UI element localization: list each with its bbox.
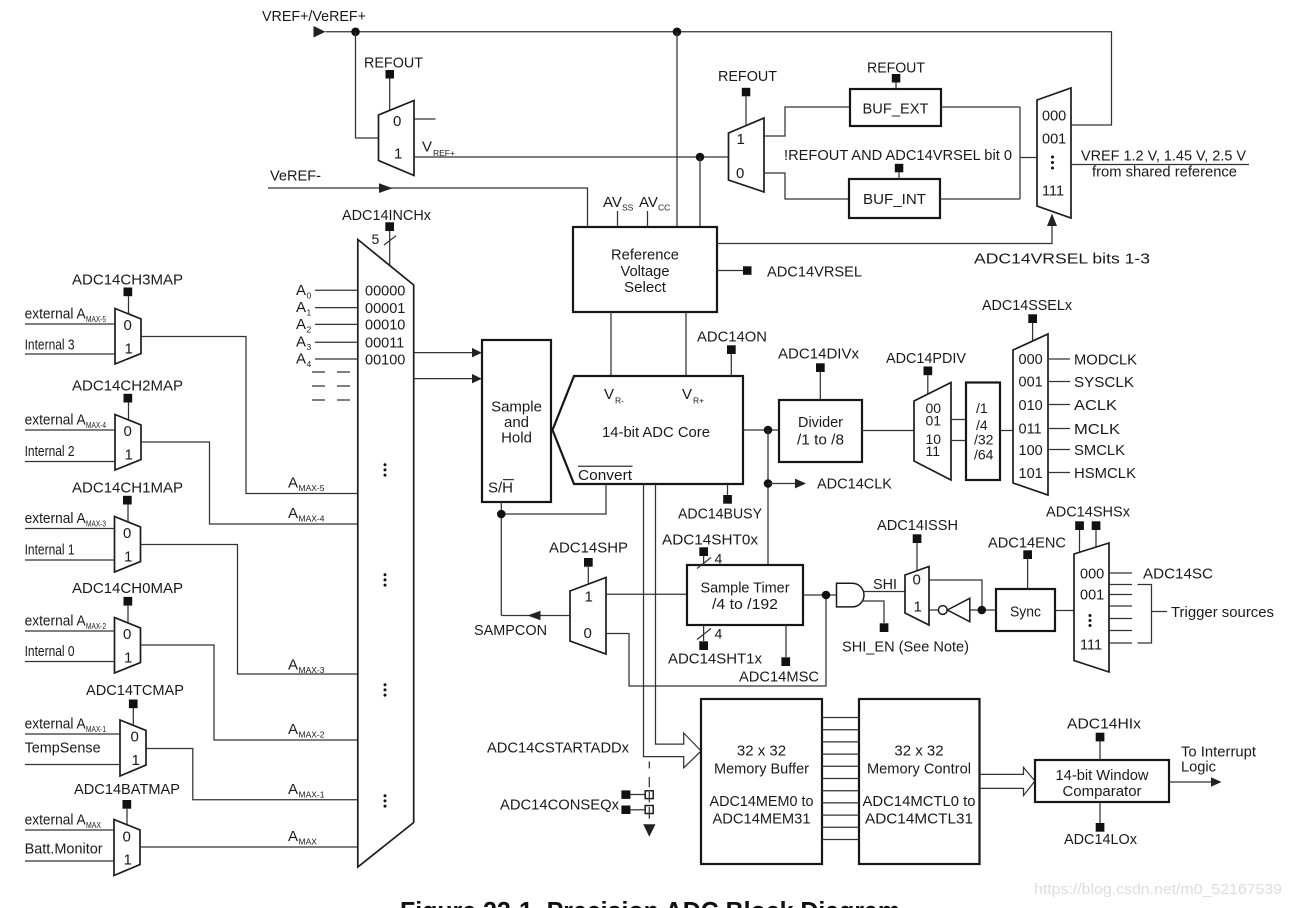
- svg-text:MAX-1: MAX-1: [299, 789, 325, 799]
- label A1: [296, 299, 312, 318]
- wire SHI_EN: [863, 601, 885, 623]
- mux ADC14CH3MAP: [115, 309, 141, 365]
- stub predivider to SSEL mux: [1000, 430, 1013, 432]
- wire convert from S and H: [501, 484, 606, 514]
- svg-text:V: V: [604, 386, 614, 403]
- svg-text:ADC14TCMAP: ADC14TCMAP: [86, 682, 184, 699]
- svg-text:Hold: Hold: [501, 430, 532, 447]
- stub trigger 2: [1109, 594, 1132, 596]
- label A2: [296, 316, 312, 335]
- svg-text:and: and: [504, 414, 529, 431]
- svg-text:Internal 1: Internal 1: [25, 542, 75, 559]
- svg-text:Batt.Monitor: Batt.Monitor: [25, 841, 103, 858]
- mux ADC14PDIV: [914, 383, 951, 481]
- wire TempSense: [25, 764, 120, 766]
- wire SHT0x to timer: [703, 556, 705, 565]
- stub PDIV lower: [951, 440, 966, 442]
- junction: [696, 153, 705, 162]
- bit square ADC14CH2MAP: [124, 394, 133, 403]
- stub buffers to U4: [1020, 157, 1037, 159]
- svg-text:V: V: [422, 139, 432, 156]
- svg-text:0: 0: [124, 317, 132, 334]
- mux ADC14TCMAP: [120, 720, 146, 776]
- bit square ADC14HIx: [1096, 733, 1105, 742]
- wire REFOUT to BUF_EXT: [895, 83, 897, 90]
- svg-text:REFOUT: REFOUT: [718, 68, 777, 85]
- svg-text:A: A: [296, 316, 306, 333]
- wire VR+ from U2 to ADC core: [685, 312, 687, 376]
- wire SHSx select right: [1095, 530, 1097, 548]
- svg-text:14-bit Window: 14-bit Window: [1056, 767, 1149, 784]
- wire bit0 to BUF_INT: [898, 172, 900, 179]
- wire BUF_INT out: [940, 198, 1020, 200]
- wire ADC14VRSEL bits 1-3: [717, 225, 1052, 244]
- svg-text:Internal 2: Internal 2: [25, 443, 75, 460]
- svg-text:Internal 3: Internal 3: [25, 337, 75, 354]
- svg-text:0: 0: [131, 729, 139, 746]
- svg-text:/64: /64: [974, 447, 994, 463]
- label A4: [296, 351, 312, 370]
- bit square ADC14DIVx: [816, 363, 825, 372]
- svg-text:0: 0: [123, 829, 131, 846]
- wire external Amax-3: [25, 528, 115, 530]
- svg-text:ADC14SC: ADC14SC: [1143, 566, 1213, 583]
- svg-text:VeREF-: VeREF-: [270, 168, 321, 185]
- wire external Amax-4: [25, 429, 115, 431]
- svg-text:ADC14ISSH: ADC14ISSH: [877, 517, 958, 534]
- junction: [673, 28, 682, 37]
- svg-text:ADC14SHP: ADC14SHP: [549, 540, 628, 557]
- svg-text:ADC14ENC: ADC14ENC: [988, 535, 1066, 552]
- bit square REFOUT left: [386, 70, 395, 79]
- wire CONSEQ upper link: [630, 794, 645, 796]
- mux ADC14ISSH: [905, 567, 929, 626]
- svg-text:ADC14MEM31: ADC14MEM31: [713, 811, 811, 828]
- bus channel conversion results outer with open arrowhead into memory buffer: [644, 484, 702, 768]
- wire SHSx select left: [1079, 530, 1081, 553]
- svg-text:AV: AV: [603, 194, 622, 211]
- svg-text:MAX-5: MAX-5: [86, 314, 106, 324]
- svg-text:001: 001: [1080, 588, 1104, 604]
- bracket trigger sources: [1138, 585, 1152, 644]
- svg-text:MAX: MAX: [86, 820, 101, 830]
- wire external Amax-2: [25, 630, 115, 632]
- wire CONSEQ lower link: [630, 809, 645, 811]
- svg-text:R+: R+: [693, 396, 704, 406]
- svg-text:REF+: REF+: [433, 148, 455, 158]
- svg-text:HSMCLK: HSMCLK: [1074, 465, 1136, 482]
- svg-text:000: 000: [1080, 567, 1104, 583]
- svg-text:MAX-2: MAX-2: [299, 730, 325, 740]
- wire ADC14CLK stub: [768, 483, 795, 485]
- wire VeREF-: [268, 188, 588, 227]
- wire SAMPCON out: [501, 615, 570, 617]
- svg-text:ADC14CONSEQx: ADC14CONSEQx: [500, 797, 619, 814]
- svg-text:R-: R-: [615, 396, 624, 406]
- svg-text:ADC14CH3MAP: ADC14CH3MAP: [72, 272, 183, 289]
- label A0: [296, 282, 312, 301]
- mux ADC14SHP: [570, 578, 606, 655]
- svg-text:A: A: [288, 657, 298, 674]
- svg-text:Divider: Divider: [798, 414, 843, 431]
- box Sync: [996, 589, 1055, 631]
- svg-text:Sample Timer: Sample Timer: [701, 580, 790, 597]
- svg-text:0: 0: [123, 525, 131, 542]
- wire Internal 2: [25, 461, 115, 463]
- bus memory buffer to control: [822, 718, 859, 840]
- svg-text:MCLK: MCLK: [1074, 421, 1120, 438]
- svg-text:Reference: Reference: [611, 247, 679, 264]
- svg-text:ADC14CH2MAP: ADC14CH2MAP: [72, 378, 183, 395]
- bit square ADC14ON: [727, 345, 736, 354]
- wire SHP select: [587, 567, 589, 584]
- svg-text:001: 001: [1042, 132, 1066, 148]
- svg-text:ADC14MCTL0 to: ADC14MCTL0 to: [863, 793, 976, 810]
- svg-text:/1: /1: [976, 400, 988, 416]
- wire A0: [315, 289, 358, 291]
- svg-text:Memory Control: Memory Control: [867, 761, 971, 778]
- box 14-bit Window Comparator: [1035, 760, 1169, 802]
- wire external Amax-5: [25, 323, 115, 325]
- bit square ADC14SHP: [584, 558, 593, 567]
- svg-text:ADC14SHSx: ADC14SHSx: [1046, 504, 1130, 521]
- stub trigger 4: [1109, 618, 1132, 620]
- wire A1: [315, 307, 358, 309]
- svg-text:1: 1: [914, 599, 922, 616]
- wire U3 out 0 to BUF_INT: [764, 173, 849, 199]
- svg-text:ADC14CH0MAP: ADC14CH0MAP: [72, 580, 183, 597]
- wire CH2 out to Amax-4: [141, 442, 358, 524]
- wire U5 out lower to S and H: [414, 378, 473, 380]
- wire BAT select: [126, 809, 128, 825]
- stub HSMCLK: [1048, 472, 1070, 474]
- wire CH2 select: [128, 403, 130, 421]
- wire A4: [315, 358, 358, 360]
- wire AVcc rail down to Reference Voltage Select: [676, 32, 678, 227]
- svg-text:ADC14SSELx: ADC14SSELx: [982, 297, 1072, 314]
- stub trigger 3: [1109, 605, 1132, 607]
- svg-text:external A: external A: [25, 412, 86, 429]
- svg-text:11: 11: [926, 443, 941, 459]
- svg-text:0: 0: [124, 423, 132, 440]
- svg-text:ADC14DIVx: ADC14DIVx: [778, 346, 860, 363]
- box 32x32 Memory Control: [859, 699, 980, 864]
- stub trigger sources: [1152, 611, 1168, 613]
- mux ADC14BATMAP: [114, 820, 140, 876]
- svg-text:111: 111: [1042, 184, 1064, 200]
- svg-text:0: 0: [913, 572, 921, 589]
- bit square ADC14BATMAP: [123, 800, 132, 809]
- svg-text:3: 3: [307, 342, 312, 352]
- bit square ADC14VRSEL: [743, 266, 752, 275]
- svg-text:00010: 00010: [365, 318, 405, 334]
- wire BAT out Amax: [140, 846, 358, 848]
- wire VREF+ internal from U1 to U3: [414, 156, 729, 158]
- arrowhead ADC14CLK: [795, 479, 806, 489]
- bus memory control to comparator lower with open arrowhead: [980, 781, 1035, 796]
- svg-text:32 x 32: 32 x 32: [894, 743, 943, 760]
- arrowhead SAMPCON: [528, 611, 541, 621]
- wire A3: [315, 341, 358, 343]
- wire divider to PDIV mux: [862, 430, 914, 432]
- svg-text:/4 to /192: /4 to /192: [712, 596, 778, 613]
- wire external Amax-1: [25, 733, 120, 735]
- svg-text:A: A: [288, 505, 298, 522]
- box Sample and Hold: [482, 340, 551, 502]
- arrowhead lower: [472, 374, 482, 384]
- mux ADC14CH2MAP: [115, 415, 141, 471]
- arrowhead interrupt: [1211, 777, 1222, 787]
- svg-text:SS: SS: [622, 203, 634, 213]
- wire VR- from U2 to ADC core: [610, 312, 612, 376]
- wire external Amax: [25, 829, 114, 831]
- bus slash 5: [372, 231, 397, 247]
- bit square ADC14ISSH: [913, 534, 922, 543]
- wire ENC to Sync: [1027, 559, 1029, 589]
- bit square ADC14CH0MAP: [124, 597, 133, 606]
- wire ADC14BUSY: [727, 484, 729, 495]
- svg-text:Sync: Sync: [1010, 604, 1041, 621]
- label external Amax-4: [25, 412, 107, 431]
- bus slash 4 lower: [697, 626, 723, 642]
- wire Internal 3: [25, 353, 115, 355]
- svg-text:ADC14CLK: ADC14CLK: [817, 476, 892, 493]
- wire SHT1x to timer: [703, 625, 705, 641]
- svg-text:A: A: [288, 828, 298, 845]
- svg-text:0: 0: [307, 290, 312, 300]
- wire ADC14MSC: [785, 625, 787, 657]
- mux ADC14CH1MAP: [115, 517, 141, 573]
- svg-text:1: 1: [307, 308, 312, 318]
- label VREF+: [422, 139, 455, 159]
- svg-text:1: 1: [125, 341, 133, 358]
- svg-text:01: 01: [926, 412, 942, 428]
- label external Amax-3: [25, 510, 107, 529]
- wire SHP 0 loop: [606, 595, 826, 686]
- wire VREF shared reference: [1071, 164, 1249, 166]
- junction: [822, 591, 831, 600]
- svg-text:ADC14VRSEL bits 1-3: ADC14VRSEL bits 1-3: [974, 251, 1150, 268]
- svg-text:0: 0: [123, 626, 131, 643]
- svg-text:1: 1: [585, 589, 593, 606]
- wire U3 select: [745, 96, 747, 125]
- stub ACLK: [1048, 404, 1070, 406]
- wire ISSH 0 input loop: [929, 580, 982, 610]
- wire Batt.Monitor: [25, 860, 114, 862]
- svg-text:ADC14CSTARTADDx: ADC14CSTARTADDx: [487, 740, 629, 757]
- stub MCLK: [1048, 428, 1070, 430]
- bit square REFOUT mid: [742, 88, 751, 97]
- svg-text:https://blog.csdn.net/m0_52167: https://blog.csdn.net/m0_52167539: [1034, 881, 1282, 898]
- svg-text:1: 1: [394, 146, 402, 163]
- bit square ADC14INCHx: [385, 222, 394, 231]
- bit square ADC14MSC: [781, 657, 790, 666]
- inverter bubble: [938, 606, 947, 615]
- junction: [978, 606, 987, 615]
- stub trigger 6: [1109, 642, 1132, 644]
- label Amax-2: [288, 721, 325, 740]
- arrowhead upper: [472, 348, 482, 358]
- svg-text:SHI_EN (See Note): SHI_EN (See Note): [842, 639, 969, 656]
- svg-text:!REFOUT AND ADC14VRSEL bit 0: !REFOUT AND ADC14VRSEL bit 0: [784, 147, 1012, 164]
- switch square upper: [645, 791, 653, 803]
- svg-text:external A: external A: [25, 716, 86, 733]
- wire LOx to comparator: [1099, 802, 1101, 823]
- wire to interrupt logic: [1169, 781, 1211, 783]
- label Amax-4: [288, 505, 325, 524]
- label A3: [296, 334, 312, 353]
- svg-text:1: 1: [125, 447, 133, 464]
- stub SYSCLK: [1048, 381, 1070, 383]
- stub ISSH 1 to inverter: [929, 609, 938, 611]
- svg-text:ADC14CH1MAP: ADC14CH1MAP: [72, 480, 183, 497]
- bit square CONSEQ lower: [621, 806, 630, 815]
- svg-text:SHI: SHI: [873, 576, 897, 593]
- mux ADC14CH0MAP: [115, 618, 141, 674]
- svg-text:MAX-3: MAX-3: [299, 665, 325, 675]
- svg-text:1: 1: [124, 852, 132, 869]
- svg-text:ADC14ON: ADC14ON: [697, 329, 767, 346]
- mux U5 input channel select: [358, 240, 414, 868]
- svg-text:MAX-4: MAX-4: [86, 420, 106, 430]
- wire ISSH select: [916, 543, 918, 571]
- bus memory control to comparator upper with open arrowhead: [980, 767, 1035, 781]
- svg-text:SYSCLK: SYSCLK: [1074, 374, 1134, 391]
- svg-text:ADC14BATMAP: ADC14BATMAP: [74, 781, 180, 798]
- box BUF_INT: [849, 179, 940, 218]
- svg-text:00001: 00001: [365, 301, 405, 317]
- wire CH3 select: [128, 296, 130, 314]
- svg-text:000: 000: [1042, 109, 1066, 125]
- svg-text:A: A: [296, 299, 306, 316]
- bit square SHI_EN: [880, 623, 889, 632]
- svg-text:2: 2: [307, 324, 312, 334]
- label AVss: [603, 194, 634, 213]
- svg-text:4: 4: [307, 359, 312, 369]
- wire CH1 select: [127, 505, 129, 523]
- bit square ADC14SSELx: [1028, 314, 1037, 323]
- svg-text:Sample: Sample: [491, 399, 542, 416]
- svg-text:32 x 32: 32 x 32: [737, 743, 786, 760]
- svg-text:A: A: [288, 721, 298, 738]
- svg-text:ADC14MEM0 to: ADC14MEM0 to: [710, 793, 814, 810]
- box U2 Reference Voltage Select: [573, 227, 717, 312]
- wire A2: [315, 323, 358, 325]
- bit square ADC14CH1MAP: [123, 496, 132, 505]
- svg-text:external A: external A: [25, 613, 86, 630]
- label Amax-1: [288, 781, 325, 800]
- svg-text:REFOUT: REFOUT: [867, 60, 925, 77]
- wire U3 out 1 to BUF_EXT: [764, 107, 850, 136]
- bit square ADC14SHSx left: [1075, 521, 1084, 530]
- wire TC select: [132, 708, 134, 726]
- pin arrow VREF+/VeREF+: [314, 26, 326, 38]
- bit square CONSEQ upper: [621, 790, 630, 799]
- svg-text:ADC14VRSEL: ADC14VRSEL: [767, 264, 862, 281]
- bit square ADC14LOx: [1096, 823, 1105, 832]
- box 32x32 Memory Buffer: [701, 699, 822, 864]
- stub ADC14VRSEL: [717, 270, 743, 272]
- wire REFOUT select: [389, 79, 391, 111]
- wire VREF+ down to Reference Voltage Select: [699, 157, 701, 227]
- stub trigger 5: [1109, 630, 1132, 632]
- bit square ADC14BUSY: [723, 495, 732, 504]
- svg-text:Convert: Convert: [578, 467, 633, 484]
- wire sample timer to SHP 1: [606, 593, 687, 595]
- wire inverter to Sync: [970, 609, 996, 611]
- arrowhead up into U4: [1047, 214, 1057, 227]
- svg-text:0: 0: [393, 113, 401, 130]
- wire ADC14ON to core: [730, 354, 732, 376]
- svg-text:VREF+/VeREF+: VREF+/VeREF+: [262, 8, 366, 25]
- svg-text:0: 0: [736, 165, 744, 182]
- junction: [764, 479, 773, 488]
- wire SSELx select: [1032, 323, 1034, 341]
- wire SHI: [864, 591, 906, 593]
- svg-text:010: 010: [1019, 398, 1043, 414]
- stub SMCLK: [1048, 449, 1070, 451]
- bus channel conversion results inner: [656, 484, 702, 751]
- svg-text:MAX-5: MAX-5: [299, 483, 325, 493]
- bit square bit 0: [895, 164, 904, 173]
- wire buffer join: [1019, 107, 1021, 199]
- bit square ADC14PDIV: [924, 367, 933, 376]
- svg-text:001: 001: [1019, 375, 1043, 391]
- bit square ADC14TCMAP: [129, 700, 138, 709]
- bus slash 4 upper: [697, 551, 723, 569]
- wire TC out to Amax-1: [146, 749, 358, 800]
- svg-text:ADC14LOx: ADC14LOx: [1064, 831, 1137, 848]
- svg-text:4: 4: [715, 626, 723, 642]
- svg-text:TempSense: TempSense: [25, 740, 101, 757]
- wire CH3 out to Amax-5: [141, 337, 358, 494]
- ellipsis dashes more channels: [312, 372, 350, 400]
- label external Amax: [25, 812, 102, 831]
- wire S and H bottom to SAMPCON: [500, 502, 502, 616]
- op block U6 14-bit ADC Core: [553, 376, 744, 484]
- svg-text:MAX-4: MAX-4: [299, 514, 325, 524]
- svg-text:101: 101: [1019, 466, 1043, 482]
- wire ADC14DIVx to divider: [819, 372, 821, 400]
- junction: [497, 510, 506, 519]
- bit square ADC14ENC: [1023, 550, 1032, 559]
- mux ADC14SHSx: [1074, 543, 1109, 672]
- svg-text:MAX: MAX: [299, 837, 318, 847]
- svg-text:ADC14SHT1x: ADC14SHT1x: [668, 651, 762, 668]
- wire CH0 select: [127, 606, 129, 623]
- svg-text:A: A: [288, 475, 298, 492]
- svg-text:VREF 1.2 V, 1.45 V, 2.5 V: VREF 1.2 V, 1.45 V, 2.5 V: [1081, 148, 1246, 165]
- wire Internal 1: [25, 559, 115, 561]
- junction: [764, 426, 773, 435]
- wire BUF_EXT out: [941, 106, 1020, 108]
- svg-text:A: A: [296, 351, 306, 368]
- wire HIx to comparator: [1099, 741, 1101, 760]
- box BUF_EXT: [850, 89, 941, 126]
- box Divider /1 to /8: [779, 400, 862, 462]
- bit square ADC14SHT0x: [699, 547, 708, 556]
- svg-text:00011: 00011: [365, 336, 404, 352]
- label external Amax-5: [25, 306, 107, 325]
- wire Sync to SHS mux: [1055, 610, 1074, 612]
- label Amax: [288, 828, 317, 847]
- stub mux U1 output 0: [414, 118, 436, 120]
- wire VREF+ top rail to mux 000 input: [326, 32, 1112, 125]
- svg-text:ADC14SHT0x: ADC14SHT0x: [662, 532, 759, 549]
- svg-text:1: 1: [124, 549, 132, 566]
- label external Amax-1: [25, 716, 107, 735]
- box Sample Timer: [687, 565, 803, 625]
